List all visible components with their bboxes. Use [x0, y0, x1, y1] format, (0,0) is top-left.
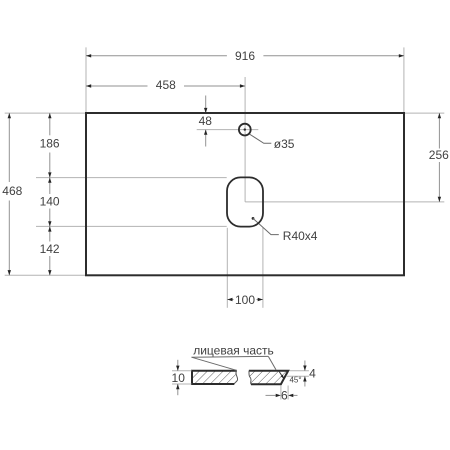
dimension 916 line — [86, 54, 404, 57]
extension line left edge above top — [85, 47, 87, 112]
extension line top-left corner — [5, 112, 86, 114]
leader for cutout radius — [253, 218, 279, 234]
extension line cutout left edge down — [226, 228, 228, 308]
oval cutout R40x4 — [227, 177, 263, 226]
svg-text:R40x4: R40x4 — [283, 229, 318, 243]
svg-text:142: 142 — [40, 242, 60, 256]
extension line bottom-left corner — [5, 274, 86, 276]
svg-text:48: 48 — [199, 114, 213, 128]
dimension 6 arrows — [266, 394, 298, 397]
centerline vertical through hole and cutout — [244, 77, 246, 202]
extension line cutout bottom — [36, 225, 227, 227]
extension line cutout right edge down — [262, 228, 264, 308]
svg-text:458: 458 — [156, 78, 176, 92]
centerline horizontal through cutout extended right for 256 — [245, 201, 444, 203]
faucet hole ø35 — [239, 124, 251, 136]
dimension 10 arrows — [176, 360, 179, 395]
section view: left piece break line — [234, 371, 237, 384]
section view: left piece outline — [192, 371, 237, 384]
dimension 256 line — [438, 113, 441, 202]
extension lines for chamfer width 6 — [280, 386, 282, 400]
countertop outline — [86, 113, 404, 275]
dimension 458 line — [86, 84, 245, 87]
svg-text:468: 468 — [2, 184, 22, 198]
dimension 468 line — [8, 113, 11, 275]
svg-text:6: 6 — [281, 388, 288, 402]
dimension 4 arrows — [303, 361, 306, 387]
leader to right piece — [268, 356, 276, 369]
svg-text:916: 916 — [235, 49, 255, 63]
dimension 48 line — [204, 96, 207, 147]
section view: right piece break line — [249, 371, 251, 385]
extension line right edge above top — [403, 47, 405, 112]
faucet hole center dot — [244, 128, 246, 130]
svg-text:4: 4 — [309, 367, 316, 381]
section view: right piece hatch — [249, 371, 288, 385]
chained dimension line 186/140/142 — [48, 113, 51, 275]
extension line cutout top — [36, 177, 227, 179]
svg-text:ø35: ø35 — [274, 137, 295, 151]
centerline horizontal through hole — [197, 129, 259, 131]
leader for hole diameter — [249, 134, 271, 143]
extension lines for chamfer 4 — [290, 370, 309, 372]
extension lines for thickness 10 — [172, 370, 192, 372]
extension line top-right corner — [405, 112, 445, 114]
svg-text:140: 140 — [40, 195, 60, 209]
dimension 100 line — [227, 298, 263, 301]
45 degree indicator arrow — [279, 372, 284, 379]
leader to left piece — [192, 357, 237, 370]
svg-text:256: 256 — [429, 148, 449, 162]
svg-text:лицевая часть: лицевая часть — [193, 343, 274, 357]
svg-text:100: 100 — [235, 293, 255, 307]
leader dot for cutout radius — [252, 217, 255, 220]
section view: right piece outline with chamfer — [249, 371, 288, 385]
section view: left piece hatch — [192, 371, 238, 384]
svg-text:10: 10 — [172, 371, 186, 385]
leader underline for litsevaya chast — [192, 355, 269, 358]
svg-text:186: 186 — [40, 136, 60, 150]
